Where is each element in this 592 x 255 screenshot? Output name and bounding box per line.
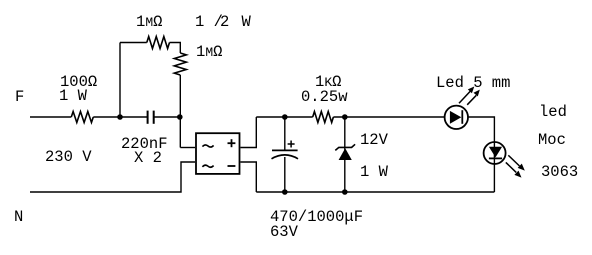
svg-text:led: led [539,103,567,121]
label Moc [538,131,566,149]
wire loop top left [120,42,147,44]
wire bottom rail minus [256,191,494,193]
LED D2 5mm [436,74,510,129]
bridge rectifier B1 [196,133,240,174]
svg-text:1MΩ: 1MΩ [136,13,162,31]
wire R4 to LED1 [333,116,444,118]
wire F line left [30,116,71,118]
LED D3 opto Moc3063 [484,142,506,164]
wire loop left vertical [119,43,121,118]
node cap bottom junction dot [282,189,288,195]
svg-text:1 W: 1 W [59,87,88,105]
svg-text:Moc: Moc [538,131,566,149]
svg-text:230 V: 230 V [45,148,92,166]
node cap top junction dot [282,114,288,120]
node zener bottom junction dot [342,189,348,195]
zener diode D1 12V [335,117,388,192]
label 1 /2 W [195,13,252,31]
capacitor C3 electrolytic 470/1000uF [270,117,363,241]
resistor R2 1MΩ horizontal [136,13,170,49]
label led [539,103,567,121]
node F [15,88,24,106]
svg-text:3063: 3063 [541,163,578,181]
wire N line bottom [30,162,195,192]
LED D3 light arrows [506,155,525,177]
node junction A dot [117,114,123,120]
wire loop top right corner [170,43,181,54]
wire LED1 to corner down [468,117,494,192]
LED D2 light arrows [459,87,480,105]
svg-text:0.25w: 0.25w [301,88,348,106]
svg-text:12V: 12V [360,131,389,149]
wire 100Ω to C1 [93,116,147,118]
resistor 100Ω [59,73,97,123]
svg-text:1 W: 1 W [360,163,389,181]
label 230 V [45,148,92,166]
wire top rail plus [256,116,312,118]
svg-text:1 /: 1 / [195,13,223,31]
wire C1 to junction B [155,116,181,118]
svg-text:1MΩ: 1MΩ [196,43,222,61]
node junction B dot [177,114,183,120]
node zener top junction dot [342,114,348,120]
node N [14,208,23,226]
wire bridge plus output [241,117,257,148]
svg-text:2: 2 [220,13,229,31]
svg-text:F: F [15,88,24,106]
svg-text:63V: 63V [270,223,299,241]
label 3063 [541,163,578,181]
wire loop right vertical down to junction B and bridge [179,75,181,148]
wire bridge minus output [241,162,257,192]
svg-text:X 2: X 2 [134,149,162,167]
svg-text:N: N [14,208,23,226]
resistor R3 1MΩ vertical [174,43,222,75]
svg-text:W: W [242,13,252,31]
resistor R4 1KΩ [301,73,348,123]
capacitor C1 220nF [121,111,168,167]
wire junction B to bridge ac1 input [180,147,195,149]
